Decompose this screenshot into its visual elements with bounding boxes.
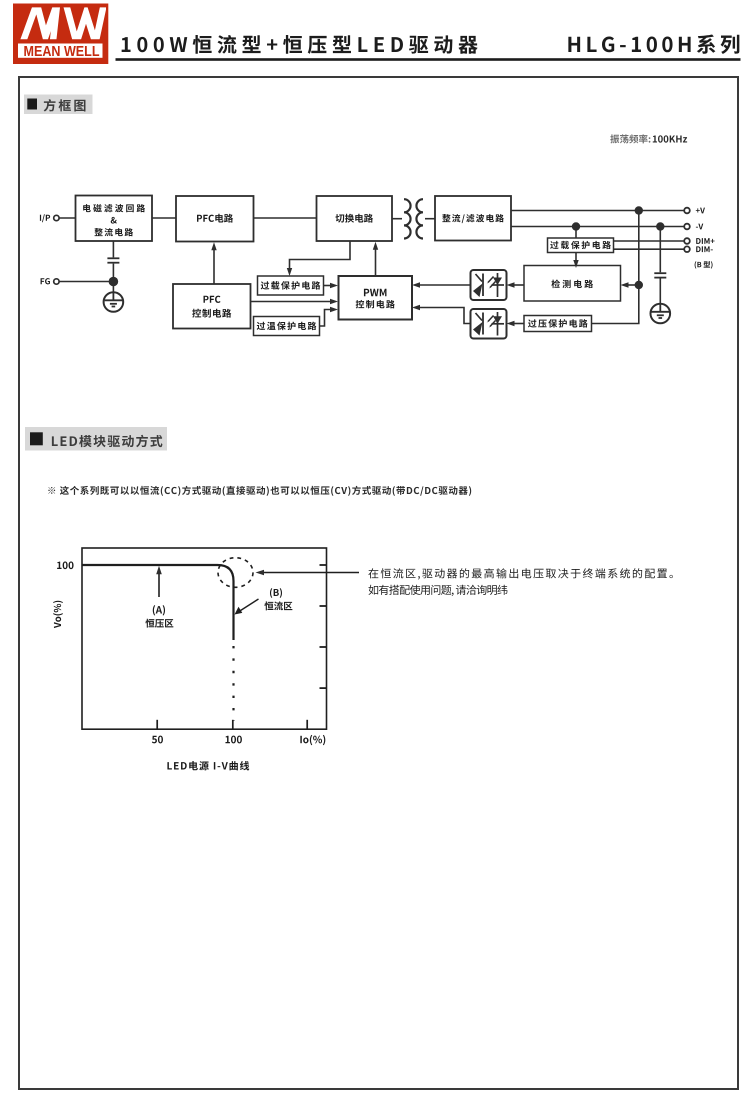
svg-text:MEAN WELL: MEAN WELL bbox=[24, 43, 100, 60]
